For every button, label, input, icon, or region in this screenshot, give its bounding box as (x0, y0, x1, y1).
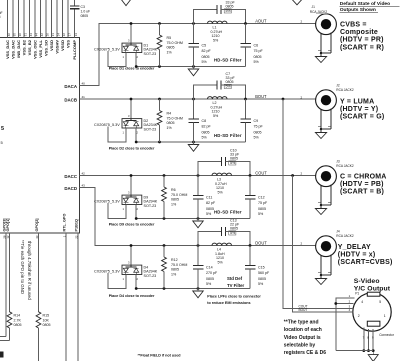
svg-text:0805: 0805 (206, 207, 214, 211)
svg-text:registers CE & D6: registers CE & D6 (284, 350, 326, 356)
svg-text:0805: 0805 (258, 277, 266, 281)
svg-text:Composite: Composite (340, 29, 378, 36)
svg-text:Place LPFs close to connector: Place LPFs close to connector (207, 295, 261, 299)
svg-text:VSS_PLL: VSS_PLL (38, 39, 43, 57)
svg-text:J2: J2 (336, 83, 340, 87)
svg-text:SOT-23: SOT-23 (144, 128, 157, 132)
svg-text:C = CHROMA: C = CHROMA (340, 173, 387, 180)
svg-text:75.0 OHM: 75.0 OHM (171, 263, 187, 267)
svg-text:CX20875_5.3V: CX20875_5.3V (94, 47, 120, 51)
svg-text:66: 66 (7, 33, 11, 37)
svg-text:(HDTV = PR): (HDTV = PR) (340, 37, 384, 44)
svg-text:75 pF: 75 pF (254, 125, 264, 129)
svg-text:J1: J1 (312, 5, 316, 9)
svg-text:26: 26 (46, 33, 50, 37)
svg-text:selectable by: selectable by (284, 342, 316, 348)
svg-text:GPO[2]: GPO[2] (35, 218, 39, 232)
svg-text:Video Output is: Video Output is (284, 335, 321, 341)
svg-text:22: 22 (62, 33, 66, 37)
svg-text:DA294K: DA294K (144, 200, 158, 204)
svg-text:CX20875_5.3V: CX20875_5.3V (94, 269, 120, 273)
svg-text:(SCART = R): (SCART = R) (340, 44, 384, 51)
svg-text:INB_DAC: INB_DAC (16, 40, 21, 58)
svg-text:0805: 0805 (202, 130, 210, 134)
svg-text:0805: 0805 (171, 268, 179, 272)
svg-text:D2: D2 (144, 119, 149, 123)
svg-text:(SCART = B): (SCART = B) (340, 189, 384, 196)
svg-text:R6: R6 (171, 188, 176, 192)
svg-text:VSSHV: VSSHV (55, 40, 60, 54)
svg-text:DACB: DACB (64, 98, 77, 103)
svg-text:5%: 5% (254, 135, 260, 139)
svg-text:5%: 5% (218, 190, 224, 194)
svg-text:43: 43 (29, 33, 33, 37)
svg-text:DA234K: DA234K (144, 48, 158, 52)
svg-text:TV Filter: TV Filter (227, 283, 245, 288)
svg-text:270 pF: 270 pF (206, 271, 218, 275)
svg-text:RTL_GPO: RTL_GPO (62, 214, 66, 232)
svg-text:0805: 0805 (230, 227, 238, 231)
svg-text:65: 65 (13, 33, 17, 37)
svg-text:(SCART=CVBS): (SCART=CVBS) (338, 259, 393, 266)
svg-text:GPO[1]: GPO[1] (6, 218, 10, 232)
svg-text:Connector: Connector (379, 333, 395, 337)
svg-text:DA234K: DA234K (144, 123, 158, 127)
svg-text:RCA JACK2: RCA JACK2 (336, 234, 354, 238)
svg-text:5%: 5% (218, 260, 224, 264)
svg-text:44: 44 (35, 33, 39, 37)
svg-text:DACC: DACC (64, 174, 78, 179)
svg-text:Y/C Output: Y/C Output (354, 285, 391, 292)
svg-text:0805: 0805 (254, 130, 262, 134)
svg-text:R14: R14 (14, 314, 21, 318)
svg-text:5%: 5% (206, 282, 212, 286)
svg-text:VSS_B2: VSS_B2 (22, 39, 27, 55)
svg-text:HD-SD Filter: HD-SD Filter (214, 58, 242, 63)
svg-text:75 pF: 75 pF (258, 201, 268, 205)
svg-text:5: 5 (379, 300, 381, 304)
svg-text:location of each: location of each (284, 327, 322, 333)
svg-text:Y_DELAY: Y_DELAY (338, 244, 371, 251)
svg-text:VSSD: VSSD (60, 40, 65, 51)
svg-text:0805: 0805 (14, 323, 22, 327)
svg-text:75.0 OHM: 75.0 OHM (167, 41, 183, 45)
svg-text:75.0 OHM: 75.0 OHM (171, 193, 187, 197)
svg-text:SOT-23: SOT-23 (144, 52, 157, 56)
svg-text:0805: 0805 (254, 55, 262, 59)
svg-text:42: 42 (40, 33, 44, 37)
svg-text:CX20875_5.3V: CX20875_5.3V (94, 199, 120, 203)
svg-text:VSS: VSS (66, 40, 71, 48)
svg-text:**Tie each GPO pin to GND: **Tie each GPO pin to GND (20, 240, 25, 294)
svg-text:D4: D4 (144, 265, 149, 269)
svg-text:C5: C5 (202, 44, 207, 48)
svg-text:VSSD: VSSD (49, 40, 54, 51)
svg-text:C14: C14 (206, 266, 213, 270)
svg-text:0805: 0805 (171, 198, 179, 202)
svg-text:**Float FIELD if not used: **Float FIELD if not used (138, 353, 182, 357)
svg-text:AOUT: AOUT (255, 19, 267, 24)
svg-text:1%: 1% (167, 50, 173, 54)
svg-text:SOT-23: SOT-23 (144, 204, 157, 208)
svg-text:5%: 5% (258, 212, 264, 216)
svg-text:1.0 uF: 1.0 uF (81, 10, 91, 14)
svg-text:4: 4 (361, 300, 363, 304)
svg-text:2.7K: 2.7K (14, 318, 22, 322)
svg-text:82 pF: 82 pF (202, 49, 212, 53)
svg-text:S-Video: S-Video (354, 278, 380, 285)
svg-text:5%: 5% (213, 114, 219, 118)
svg-text:13: 13 (74, 33, 78, 37)
svg-text:**The type and: **The type and (284, 320, 319, 326)
svg-text:COUT: COUT (255, 171, 267, 176)
svg-text:75 pF: 75 pF (254, 49, 264, 53)
svg-text:J4: J4 (336, 229, 340, 233)
svg-text:0805: 0805 (167, 46, 175, 50)
svg-text:14: 14 (57, 33, 61, 37)
svg-text:5%: 5% (226, 85, 232, 89)
svg-text:(HDTV = Y): (HDTV = Y) (340, 106, 378, 113)
svg-text:Std Def: Std Def (227, 276, 243, 281)
svg-text:Y = LUMA: Y = LUMA (340, 98, 374, 105)
svg-text:1%: 1% (167, 126, 173, 130)
svg-text:1%: 1% (171, 272, 177, 276)
svg-text:HD-SD Filter: HD-SD Filter (214, 133, 242, 138)
svg-text:1%: 1% (171, 202, 177, 206)
svg-text:BOUT: BOUT (299, 308, 308, 312)
svg-text:31: 31 (51, 33, 55, 37)
svg-text:0805: 0805 (258, 207, 266, 211)
svg-text:51: 51 (24, 33, 28, 37)
svg-text:VSS_B2: VSS_B2 (27, 39, 32, 55)
svg-text:VSS_SO: VSS_SO (44, 40, 49, 56)
svg-text:BOUT: BOUT (255, 94, 267, 99)
svg-text:C11: C11 (206, 196, 212, 200)
svg-text:through 4.75kohm R if unused: through 4.75kohm R if unused (27, 241, 32, 300)
svg-text:5%: 5% (206, 212, 212, 216)
svg-text:CX20875_5.3V: CX20875_5.3V (94, 123, 120, 127)
svg-text:75.0 OHM: 75.0 OHM (167, 116, 183, 120)
svg-text:RCA JACK2: RCA JACK2 (336, 164, 354, 168)
svg-text:to reduce EMI emissions: to reduce EMI emissions (207, 301, 250, 305)
svg-text:0805: 0805 (81, 14, 89, 18)
svg-text:R5: R5 (167, 36, 172, 40)
svg-text:Place D9 close to encoder: Place D9 close to encoder (109, 223, 155, 227)
svg-text:5%: 5% (226, 9, 232, 13)
svg-text:Place D2 close to encoder: Place D2 close to encoder (109, 147, 155, 151)
svg-text:(HDTV = PB): (HDTV = PB) (340, 181, 384, 188)
svg-text:C9: C9 (254, 119, 259, 123)
svg-text:560 pF: 560 pF (258, 271, 270, 275)
svg-text:D1: D1 (144, 43, 149, 47)
svg-text:R12: R12 (171, 258, 178, 262)
svg-text:C3: C3 (81, 5, 85, 9)
svg-text:C12: C12 (258, 196, 265, 200)
svg-text:DA294K: DA294K (144, 270, 158, 274)
svg-text:10K: 10K (43, 318, 50, 322)
svg-text:R15: R15 (43, 314, 50, 318)
svg-text:VSS_DAC: VSS_DAC (11, 40, 16, 59)
svg-text:PLLCOMP: PLLCOMP (72, 40, 77, 60)
svg-text:36: 36 (18, 33, 22, 37)
svg-text:DACA: DACA (64, 84, 78, 89)
svg-text:SOT-23: SOT-23 (144, 274, 157, 278)
svg-text:5: 5 (1, 126, 4, 132)
svg-text:D9: D9 (144, 195, 149, 199)
svg-text:RCA JACK2: RCA JACK2 (336, 88, 354, 92)
svg-text:1.0 uF: 1.0 uF (0, 11, 3, 15)
svg-text:P1B1Q: P1B1Q (74, 219, 78, 231)
svg-text:0805: 0805 (206, 277, 214, 281)
svg-text:0805: 0805 (226, 80, 234, 84)
svg-text:Place D1 close to encoder: Place D1 close to encoder (109, 67, 155, 71)
svg-text:CVBS =: CVBS = (340, 22, 367, 29)
svg-text:0805: 0805 (230, 157, 238, 161)
svg-text:17: 17 (68, 33, 72, 37)
svg-text:0805: 0805 (226, 5, 234, 9)
svg-text:C6: C6 (254, 44, 259, 48)
svg-text:5%: 5% (202, 135, 208, 139)
svg-text:2: 2 (358, 314, 360, 318)
svg-text:DACD: DACD (64, 186, 77, 191)
svg-text:82 pF: 82 pF (206, 201, 216, 205)
svg-text:(SCART = G): (SCART = G) (340, 114, 384, 121)
svg-text:1: 1 (384, 314, 386, 318)
svg-text:C15: C15 (258, 266, 265, 270)
svg-text:5%: 5% (254, 60, 260, 64)
svg-text:5%: 5% (202, 60, 208, 64)
svg-text:5%: 5% (230, 161, 236, 165)
svg-text:R4: R4 (167, 112, 172, 116)
svg-text:C8: C8 (202, 119, 207, 123)
svg-text:VSS_DAC: VSS_DAC (5, 40, 10, 59)
svg-text:(HDTV = x): (HDTV = x) (338, 251, 376, 258)
svg-text:43: 43 (82, 184, 86, 188)
svg-text:Place D4 close to encoder: Place D4 close to encoder (109, 294, 155, 298)
svg-text:5%: 5% (213, 38, 219, 42)
svg-text:0805: 0805 (202, 55, 210, 59)
svg-text:40: 40 (82, 82, 86, 86)
svg-text:VSS_OSC: VSS_OSC (33, 40, 38, 59)
svg-text:0805: 0805 (167, 121, 175, 125)
svg-text:82 pF: 82 pF (202, 125, 212, 129)
svg-text:0805: 0805 (43, 323, 51, 327)
svg-text:5%: 5% (258, 282, 264, 286)
svg-text:P1: P1 (355, 292, 359, 296)
svg-text:42: 42 (82, 172, 86, 176)
svg-text:41: 41 (82, 95, 86, 99)
svg-text:5%: 5% (230, 231, 236, 235)
svg-text:J3: J3 (336, 159, 340, 163)
svg-text:DOUT: DOUT (255, 241, 267, 246)
svg-text:HD-SD Filter: HD-SD Filter (214, 210, 242, 215)
